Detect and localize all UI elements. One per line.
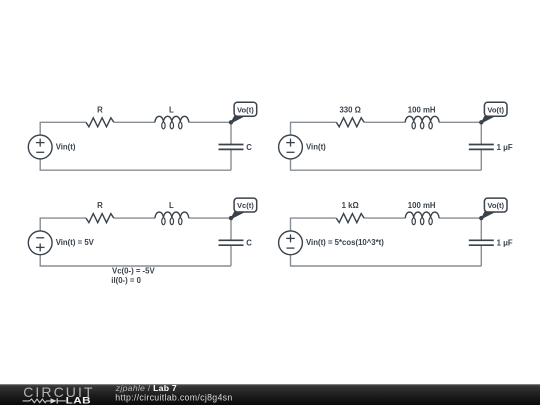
- output flag Vc(t) at node: [231, 212, 244, 219]
- svg-text:Vin(t): Vin(t): [306, 142, 326, 151]
- inductor L: [155, 212, 189, 218]
- wire inductor to output node: [439, 217, 481, 219]
- bottom rail wire: [40, 159, 231, 170]
- logo diode symbol: [51, 398, 57, 403]
- output flag Vo(t) at node: [481, 116, 494, 123]
- inductor 100 mH: [405, 212, 439, 218]
- wire node down to capacitor: [480, 122, 482, 144]
- svg-text:Vo(t): Vo(t): [487, 105, 504, 114]
- svg-text:Vin(t): Vin(t): [56, 142, 76, 151]
- logo resistor squiggle: [23, 399, 51, 403]
- circuit 3: wire top-left segment: [40, 218, 86, 231]
- svg-text:Vin(t) = 5V: Vin(t) = 5V: [56, 238, 95, 247]
- wire node down to capacitor: [480, 218, 482, 240]
- resistor R: [86, 118, 114, 127]
- svg-text:R: R: [97, 201, 103, 210]
- svg-text:L: L: [169, 105, 174, 114]
- wire between resistor and inductor: [364, 121, 405, 123]
- wire inductor to output node: [189, 217, 231, 219]
- capacitor C: [219, 144, 244, 146]
- output flag Vo(t) at node: [481, 212, 494, 219]
- capacitor 1 &#956;F: [469, 144, 494, 146]
- wire between resistor and inductor: [114, 217, 155, 219]
- svg-text:Vin(t) = 5*cos(10^3*t): Vin(t) = 5*cos(10^3*t): [306, 238, 384, 247]
- svg-text:L: L: [169, 201, 174, 210]
- bottom rail wire: [40, 255, 231, 266]
- svg-text:C: C: [246, 143, 252, 152]
- output flag Vo(t) at node: [231, 116, 244, 123]
- svg-text:100 mH: 100 mH: [408, 105, 436, 114]
- svg-text:R: R: [97, 105, 103, 114]
- wire inductor to output node: [189, 121, 231, 123]
- voltage source Vin(t) = 5V: [28, 231, 52, 255]
- wire between resistor and inductor: [114, 121, 155, 123]
- wire node down to capacitor: [230, 122, 232, 144]
- circuit 4: wire top-left segment: [291, 218, 337, 231]
- voltage source Vin(t) = 5*cos(10^3*t): [279, 231, 303, 255]
- svg-text:1 μF: 1 μF: [497, 239, 513, 248]
- svg-text:il(0-) = 0: il(0-) = 0: [111, 276, 141, 285]
- voltage source Vin(t): [279, 135, 303, 159]
- inductor L: [155, 116, 189, 122]
- svg-text:zjpahle / Lab 7: zjpahle / Lab 7: [115, 383, 177, 393]
- resistor 1 k&#937;: [336, 214, 364, 223]
- bottom rail wire: [291, 159, 482, 170]
- wire node down to capacitor: [230, 218, 232, 240]
- svg-text:100 mH: 100 mH: [408, 201, 436, 210]
- bottom rail wire: [291, 255, 482, 266]
- svg-text:Vo(t): Vo(t): [487, 201, 504, 210]
- circuit 1: wire top-left segment: [40, 122, 86, 135]
- capacitor C: [219, 239, 244, 241]
- voltage source Vin(t): [28, 135, 52, 159]
- capacitor 1 &#956;F: [469, 239, 494, 241]
- wire capacitor down to bottom rail: [480, 245, 482, 266]
- wire capacitor down to bottom rail: [230, 245, 232, 266]
- svg-text:1 kΩ: 1 kΩ: [342, 201, 359, 210]
- svg-text:Vo(t): Vo(t): [237, 105, 254, 114]
- svg-text:330 Ω: 330 Ω: [339, 105, 360, 114]
- svg-text:Vc(0-) = -5V: Vc(0-) = -5V: [112, 267, 155, 276]
- wire capacitor down to bottom rail: [480, 149, 482, 170]
- circuit 2: wire top-left segment: [291, 122, 337, 135]
- inductor 100 mH: [405, 116, 439, 122]
- svg-text:LAB: LAB: [66, 395, 91, 405]
- svg-text:http://circuitlab.com/cj8g4sn: http://circuitlab.com/cj8g4sn: [115, 392, 232, 402]
- wire capacitor down to bottom rail: [230, 149, 232, 170]
- resistor 330 &#937;: [336, 118, 364, 127]
- svg-text:Vc(t): Vc(t): [237, 201, 254, 210]
- resistor R: [86, 214, 114, 223]
- wire inductor to output node: [439, 121, 481, 123]
- svg-text:1 μF: 1 μF: [497, 143, 513, 152]
- svg-text:C: C: [246, 239, 252, 248]
- wire between resistor and inductor: [364, 217, 405, 219]
